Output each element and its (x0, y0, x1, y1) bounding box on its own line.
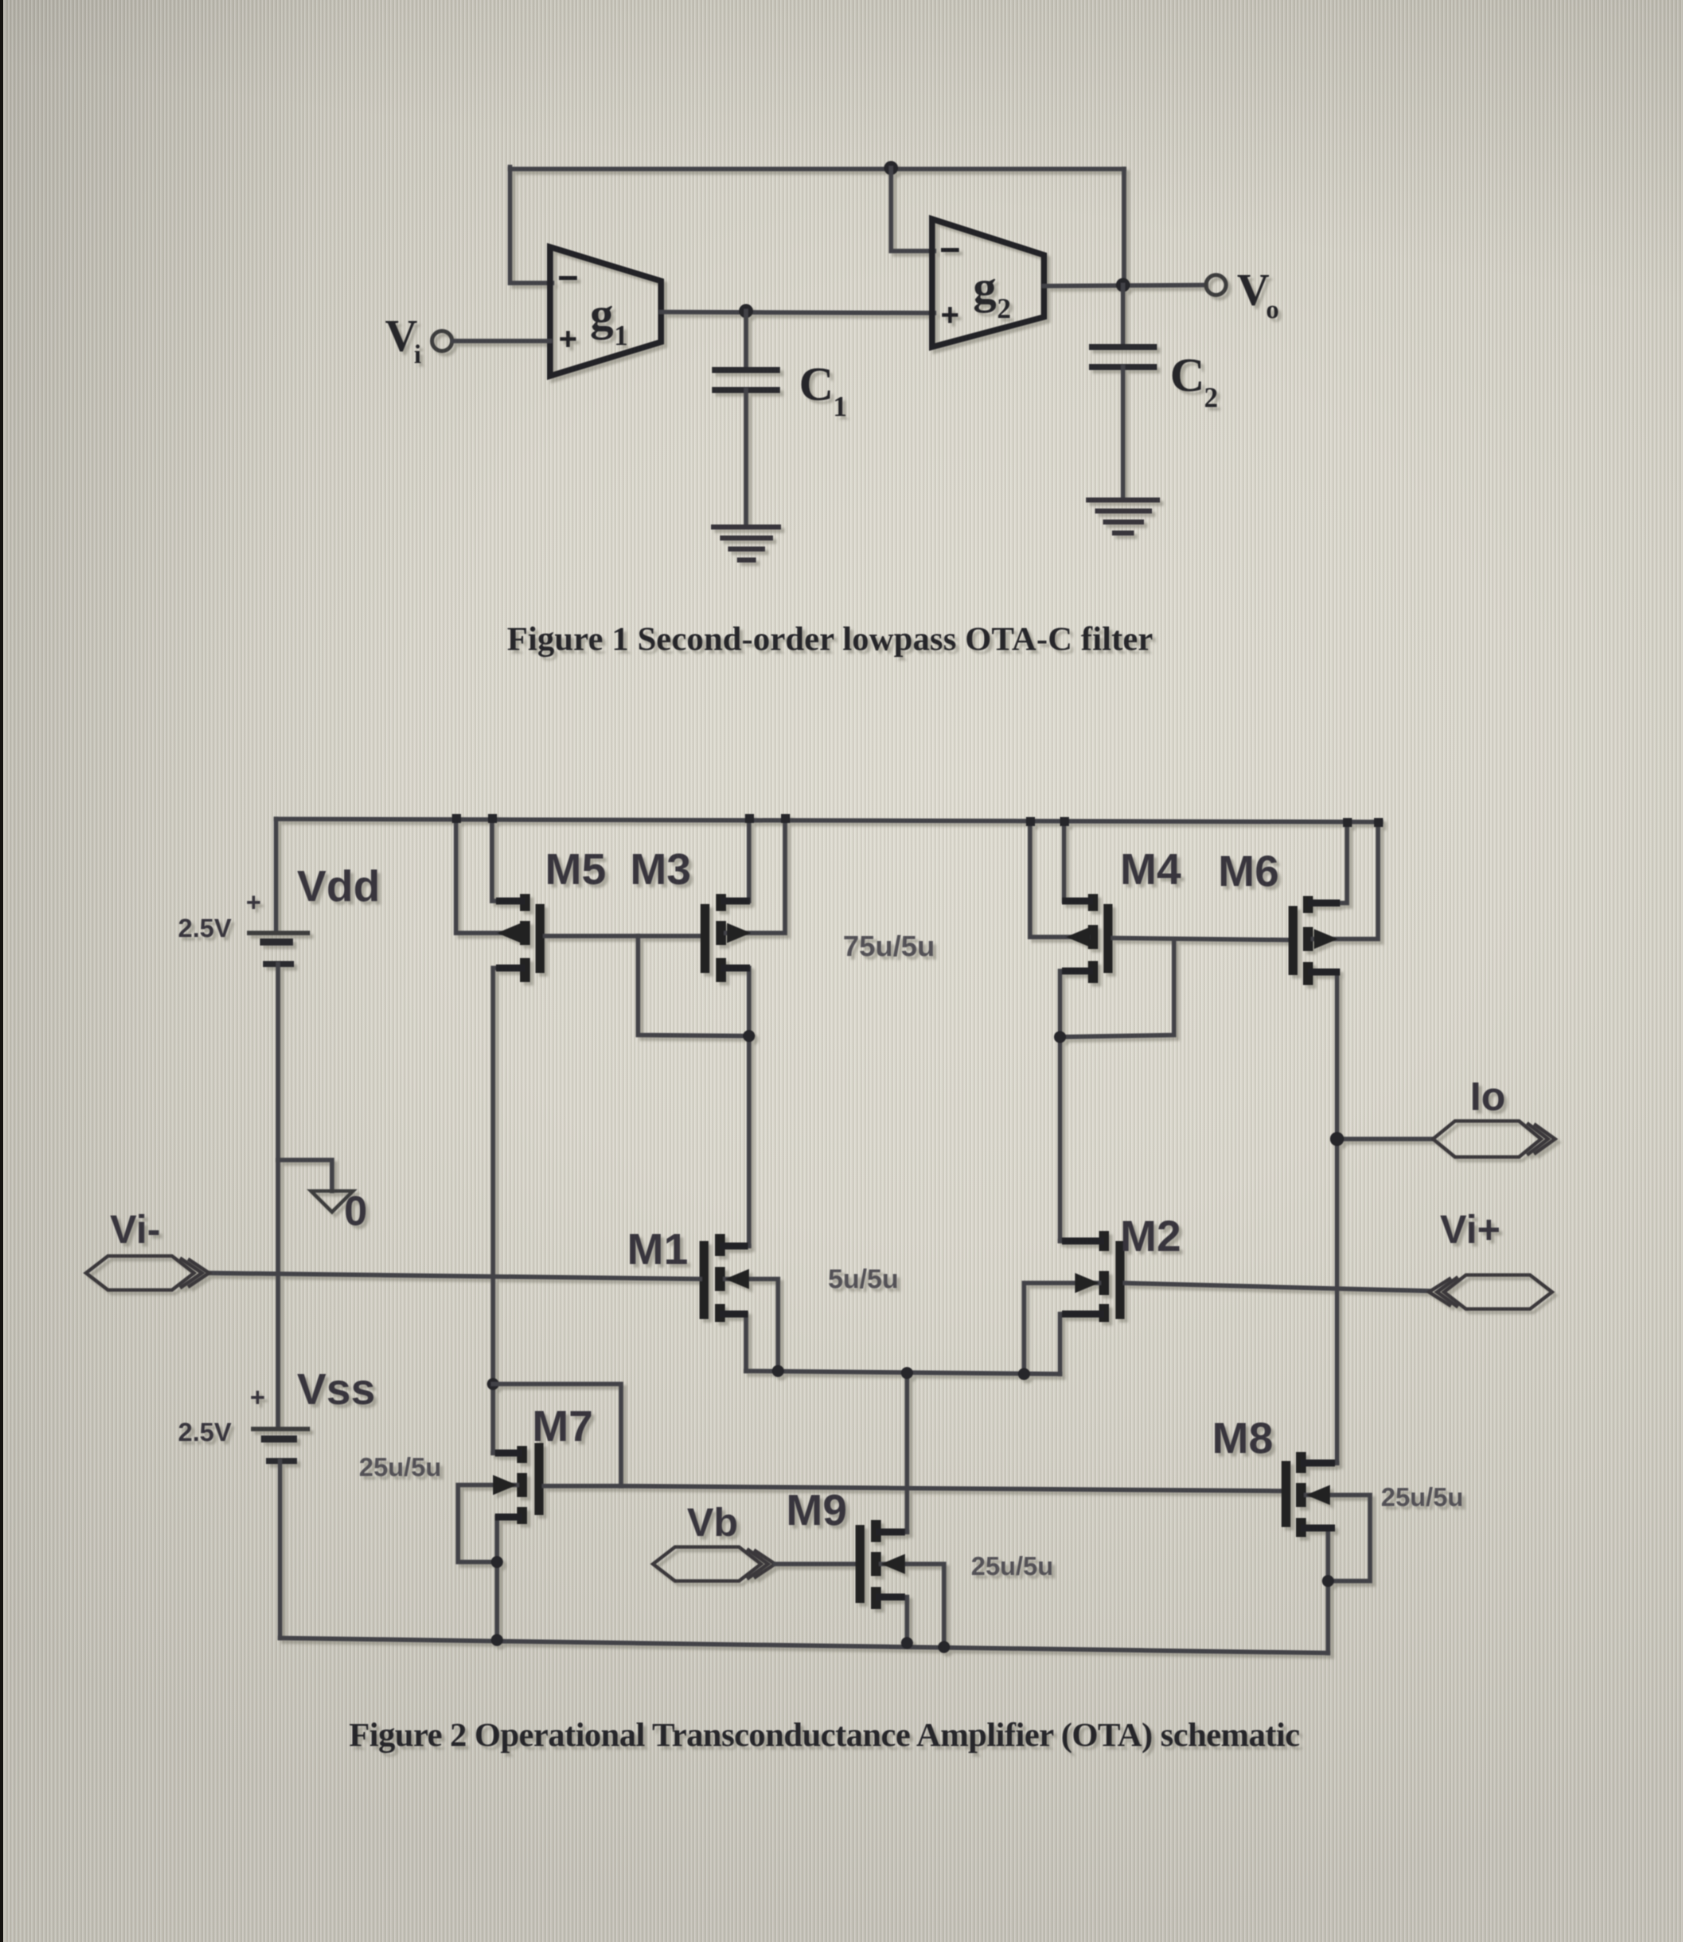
svg-text:25u/5u: 25u/5u (359, 1452, 441, 1482)
transistor M4 (PMOS diode-connected) (1088, 894, 1098, 911)
svg-text:M5: M5 (545, 845, 606, 894)
node Vi input terminal (432, 331, 452, 351)
svg-text:25u/5u: 25u/5u (971, 1551, 1053, 1581)
wire Io output branch (1337, 1137, 1433, 1142)
svg-text:M6: M6 (1218, 847, 1279, 896)
wire M4 gate-drain cross connection (1060, 939, 1174, 1037)
wire Vi to g1 plus input (453, 339, 550, 344)
node junction on top feedback wire (884, 161, 898, 175)
battery V1 2.5V Vdd (247, 931, 310, 936)
wire tail node M1 M2 sources (746, 1371, 1060, 1374)
svg-text:g: g (590, 289, 614, 341)
wire M3 gate-drain cross connection (638, 936, 749, 1036)
wire top feedback Vo to g1 minus (510, 167, 1124, 172)
svg-text:Io: Io (1470, 1075, 1506, 1119)
ground below C1 (711, 525, 781, 530)
wire tail down to M9 drain (905, 1373, 910, 1532)
op-amp OTA g1 (550, 247, 661, 376)
battery V2 2.5V Vss (251, 1427, 310, 1432)
node Vi+ input terminal (1429, 1275, 1552, 1309)
ground below C2 (1086, 498, 1160, 503)
wire supply column battery to Vss (276, 964, 281, 1427)
svg-text:o: o (1266, 295, 1279, 324)
svg-text:2.5V: 2.5V (178, 913, 232, 943)
wire Vdd column down to battery (274, 819, 279, 931)
wire M5 gate to M3 gate (545, 934, 701, 939)
FIG2 (86, 814, 1555, 1653)
svg-text:Vi-: Vi- (110, 1208, 160, 1252)
svg-text:2: 2 (997, 294, 1011, 325)
node Vo output terminal (1206, 275, 1226, 295)
svg-text:75u/5u: 75u/5u (843, 931, 935, 963)
transistor M1 (NMOS) (700, 1241, 709, 1319)
wire M4 gate to M6 gate (1113, 938, 1288, 940)
wire M7 gate to M8 gate (621, 1486, 1282, 1491)
node Vi- input terminal (86, 1256, 209, 1290)
ground 0 reference (311, 1191, 353, 1212)
FIG1 (385, 161, 1279, 560)
wire Vb to M9 gate (775, 1562, 855, 1567)
svg-text:M4: M4 (1120, 845, 1182, 894)
svg-text:V: V (385, 311, 418, 361)
wire Vdd top rail (276, 819, 1381, 822)
svg-text:M1: M1 (627, 1225, 688, 1274)
wire g1 output to g2 plus input (661, 312, 934, 313)
wire Vss column to bottom rail (278, 1461, 283, 1638)
wire M7 gate box (493, 1384, 621, 1486)
node C1 top junction (739, 304, 753, 318)
transistor M9 (NMOS) (856, 1525, 865, 1603)
transistor M8 (NMOS) (1282, 1461, 1291, 1527)
wire g2 output to Vo (1044, 285, 1206, 286)
svg-text:V: V (1237, 265, 1270, 315)
svg-text:2.5V: 2.5V (178, 1417, 232, 1447)
transistor M2 (NMOS) (1099, 1231, 1109, 1251)
svg-text:Figure 1 Second-order lowpass: Figure 1 Second-order lowpass OTA-C filt… (507, 621, 1153, 658)
svg-text:Vi+: Vi+ (1440, 1208, 1500, 1252)
rail junction nubs (452, 814, 1383, 827)
transistor M3 (PMOS diode-connected) (701, 904, 710, 973)
capacitor C1 (744, 311, 749, 367)
transistor M7 (NMOS mirrored) (517, 1446, 527, 1463)
svg-text:5u/5u: 5u/5u (828, 1264, 899, 1294)
wire left drop to g1 minus input (510, 167, 552, 283)
svg-text:M3: M3 (630, 845, 691, 894)
svg-text:g: g (973, 262, 997, 314)
wire Vss bottom rail (280, 1638, 1328, 1653)
svg-text:M2: M2 (1120, 1212, 1181, 1261)
op-amp OTA g2 (932, 219, 1044, 347)
svg-text:Vdd: Vdd (297, 862, 380, 911)
wire branch to ground 0 (278, 1160, 332, 1191)
svg-text:+: + (246, 887, 261, 917)
svg-text:25u/5u: 25u/5u (1381, 1482, 1463, 1512)
svg-text:i: i (414, 340, 421, 369)
svg-text:M7: M7 (532, 1402, 593, 1451)
svg-text:1: 1 (833, 392, 847, 423)
wire Vi+ input row (1125, 1283, 1429, 1291)
svg-text:0: 0 (344, 1187, 367, 1234)
node Io output terminal (1433, 1121, 1555, 1157)
wire right drop from feedback to Vo node (1122, 169, 1127, 285)
CAPTIONS (349, 621, 1300, 1754)
transistor M6 (PMOS) (1289, 906, 1298, 975)
svg-text:2: 2 (1204, 383, 1218, 414)
svg-text:C: C (1170, 349, 1205, 402)
node Vo junction (1116, 278, 1130, 292)
capacitor C2 (1121, 285, 1126, 344)
svg-text:M9: M9 (786, 1486, 847, 1535)
svg-text:Vss: Vss (297, 1365, 375, 1414)
node Vb terminal (653, 1547, 775, 1581)
svg-text:C: C (799, 358, 834, 411)
wire Vi- input row (209, 1273, 700, 1279)
svg-text:M8: M8 (1212, 1414, 1273, 1463)
svg-text:1: 1 (614, 321, 628, 352)
transistor M5 (PMOS) (520, 894, 530, 911)
wire drop from node to g2 minus input (891, 168, 934, 251)
svg-text:+: + (250, 1382, 265, 1412)
svg-text:Vb: Vb (687, 1501, 738, 1545)
svg-text:Figure 2 Operational Transcond: Figure 2 Operational Transconductance Am… (349, 1717, 1300, 1754)
